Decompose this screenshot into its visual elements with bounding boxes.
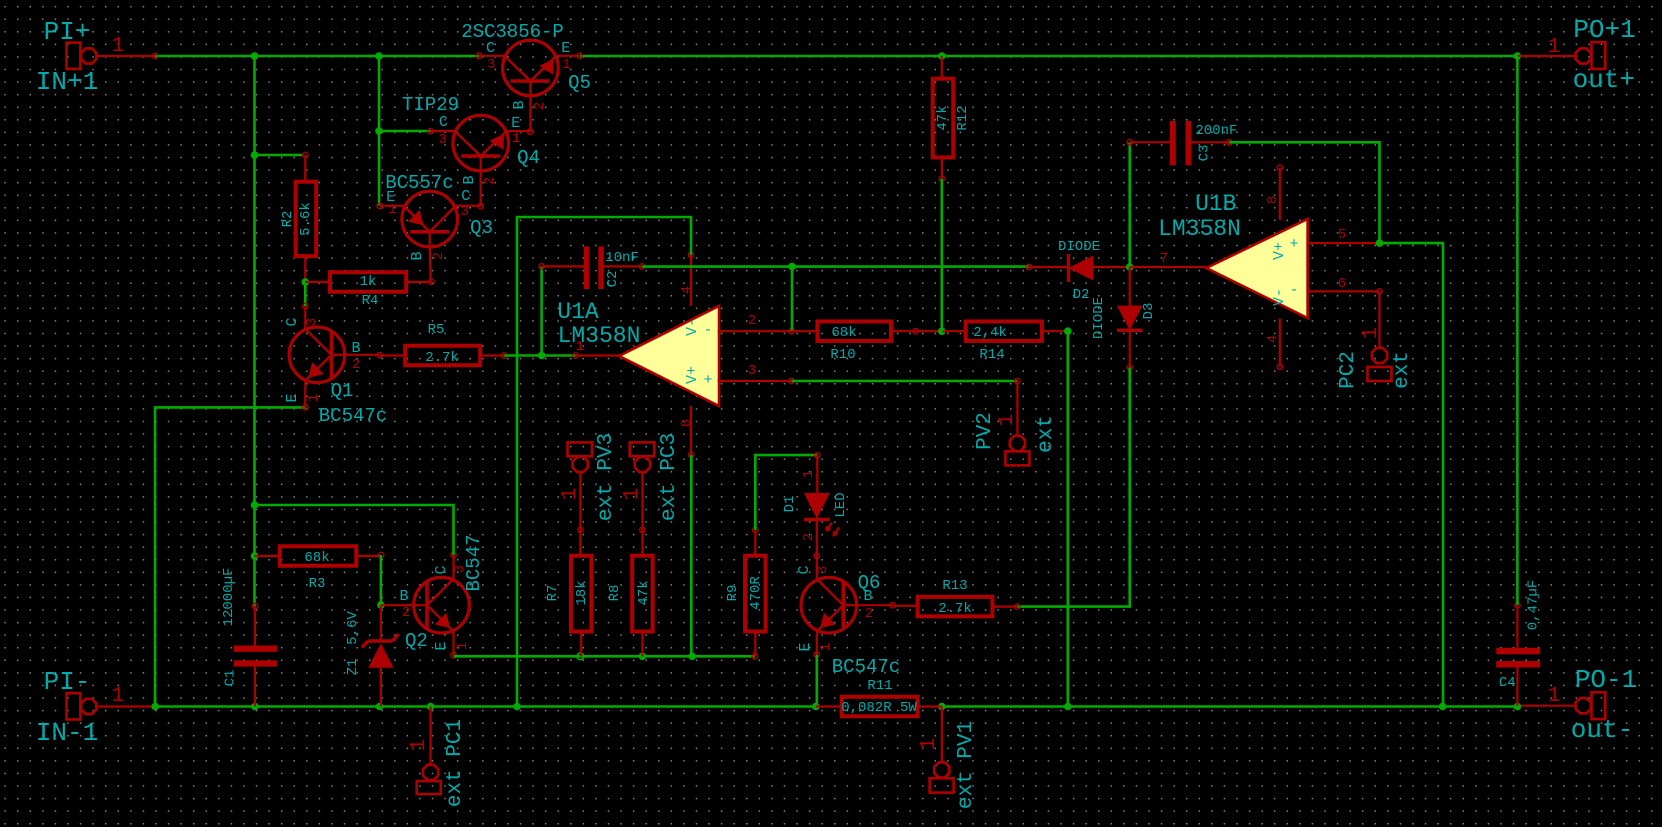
svg-text:U1A: U1A — [557, 299, 599, 325]
svg-text:C: C — [461, 188, 470, 205]
wire branch to R2 top — [255, 154, 303, 157]
svg-text:+: + — [703, 372, 712, 389]
svg-text:DIODE: DIODE — [1091, 297, 1107, 339]
svg-text:D2: D2 — [1073, 287, 1090, 303]
port extPV1 — [941, 707, 943, 763]
svg-text:4: 4 — [1265, 335, 1281, 343]
wire R2 bottom to Q1.C — [304, 282, 307, 306]
node Q2 base / Z1 junction — [377, 601, 385, 609]
svg-text:U1B: U1B — [1195, 191, 1236, 217]
wire branch to Q4.C — [379, 130, 431, 133]
port PV3 — [568, 442, 593, 456]
svg-text:Q4: Q4 — [517, 147, 540, 169]
svg-text:V+: V+ — [1271, 242, 1288, 260]
svg-text:B: B — [511, 100, 528, 109]
svg-text:B: B — [461, 175, 478, 184]
port extPC1 — [430, 707, 432, 765]
svg-text:LED: LED — [833, 492, 849, 517]
svg-text:BC547: BC547 — [463, 534, 485, 591]
svg-text:7: 7 — [1160, 251, 1168, 267]
svg-text:0,082R 5W: 0,082R 5W — [841, 700, 917, 716]
wire Q6 emitter to bottom rail — [815, 655, 818, 707]
svg-text:8: 8 — [679, 419, 695, 427]
zener Z1 5.6V — [380, 605, 382, 641]
svg-text:3: 3 — [438, 132, 446, 148]
svg-text:Q5: Q5 — [568, 72, 591, 94]
port PO-1 / out- — [1592, 692, 1606, 719]
svg-text:5,6V: 5,6V — [345, 611, 361, 645]
op-amp U1A LM358N — [619, 306, 719, 406]
svg-text:1: 1 — [801, 470, 817, 478]
wire C3 right to U1B pin5 node — [1229, 142, 1379, 243]
svg-text:1: 1 — [1548, 685, 1561, 708]
wire drop to U1A pin2 / R10 — [791, 267, 794, 332]
svg-text:1: 1 — [559, 488, 582, 501]
resistor R10 68k — [817, 321, 891, 341]
svg-text:C3: C3 — [1197, 145, 1213, 162]
port PC2 ext — [1378, 291, 1380, 347]
wire bottom rail right — [942, 705, 1518, 708]
svg-text:1: 1 — [918, 738, 941, 751]
svg-text:1: 1 — [455, 642, 471, 650]
svg-text:47k: 47k — [636, 580, 652, 605]
svg-text:R9: R9 — [725, 585, 741, 602]
svg-text:E: E — [433, 641, 450, 650]
resistor R9 470R — [745, 556, 766, 632]
svg-text:3: 3 — [815, 566, 831, 574]
diode D1 LED — [815, 452, 820, 457]
svg-text:out-: out- — [1571, 715, 1633, 745]
svg-text:10nF: 10nF — [605, 250, 639, 266]
svg-text:1: 1 — [996, 414, 1019, 427]
wire Q1 emitter to bottom rail — [155, 407, 305, 706]
wire R5 to U1A pin1 — [504, 354, 575, 357]
svg-text:1: 1 — [306, 394, 322, 402]
svg-text:2.7k: 2.7k — [425, 350, 459, 366]
svg-text:1: 1 — [1360, 327, 1383, 340]
svg-text:2: 2 — [865, 606, 873, 622]
resistor R11 0.082R 5W — [842, 697, 918, 717]
svg-text:1: 1 — [112, 35, 125, 58]
port PI- / IN-1 — [67, 693, 81, 719]
svg-text:LM358N: LM358N — [558, 323, 641, 349]
transistor Q6 BC547c — [801, 577, 857, 633]
svg-text:-: - — [703, 322, 712, 339]
svg-text:68k: 68k — [831, 325, 856, 341]
wire Q2 emitter node wire — [454, 655, 755, 658]
svg-text:1: 1 — [408, 739, 431, 752]
svg-text:D3: D3 — [1141, 303, 1157, 320]
svg-text:470R: 470R — [748, 576, 764, 610]
svg-text:6: 6 — [1338, 276, 1346, 292]
svg-text:ext PC1: ext PC1 — [444, 719, 467, 807]
svg-text:3: 3 — [487, 57, 495, 73]
svg-text:R12: R12 — [955, 105, 971, 130]
svg-text:B: B — [409, 251, 426, 260]
svg-text:R14: R14 — [979, 347, 1004, 363]
svg-text:E: E — [284, 393, 301, 402]
svg-text:+: + — [1289, 236, 1298, 253]
svg-text:Q2: Q2 — [405, 630, 428, 652]
svg-text:Z1: Z1 — [345, 659, 361, 676]
svg-text:200nF: 200nF — [1195, 123, 1237, 139]
wire top rail left (PI+ to Q5.C) — [155, 55, 479, 58]
wire top rail right (Q5.E to PO+1) — [580, 55, 1517, 58]
svg-text:1k: 1k — [360, 274, 377, 290]
node D2/D3/U1B/C3 junction — [1126, 263, 1134, 271]
svg-text:18k: 18k — [574, 580, 590, 605]
node emitter wire junctions — [639, 653, 647, 661]
resistor R5 2.7k — [405, 346, 480, 366]
svg-text:Q3: Q3 — [470, 217, 493, 239]
resistor R7 18k — [571, 556, 592, 632]
port PC3 — [630, 442, 655, 456]
wire R14 right to bottom rail — [1067, 331, 1070, 706]
svg-text:V-: V- — [1271, 288, 1288, 306]
svg-text:1: 1 — [512, 131, 520, 147]
transistor Q3 BC557c — [402, 191, 458, 247]
resistor R12 47k — [933, 79, 954, 158]
diode D3 — [1117, 306, 1143, 331]
svg-text:68k: 68k — [304, 550, 329, 566]
svg-text:ext PC3: ext PC3 — [658, 433, 681, 521]
svg-text:C: C — [284, 317, 301, 326]
svg-text:C: C — [439, 114, 448, 131]
transistor Q2 BC547 — [414, 577, 470, 633]
svg-text:8: 8 — [1265, 196, 1281, 204]
svg-text:C4: C4 — [1499, 675, 1516, 691]
svg-text:2.7k: 2.7k — [938, 601, 972, 617]
wire left vertical x=254 (top rail to C1) — [253, 56, 256, 606]
svg-text:1: 1 — [112, 685, 125, 708]
svg-text:PC2: PC2 — [1337, 351, 1360, 389]
svg-text:out+: out+ — [1573, 65, 1635, 95]
wire C4 top to top rail — [1516, 56, 1519, 605]
svg-text:R2: R2 — [280, 211, 296, 228]
svg-text:PO+1: PO+1 — [1573, 15, 1635, 45]
svg-text:1: 1 — [562, 57, 570, 73]
svg-text:R3: R3 — [309, 576, 326, 592]
svg-text:2: 2 — [352, 357, 360, 373]
svg-text:5.6k: 5.6k — [298, 202, 314, 236]
svg-text:Q6: Q6 — [858, 572, 881, 594]
svg-text:ext: ext — [1391, 351, 1414, 389]
wire C2 left to pin1 node — [540, 266, 543, 355]
svg-text:V+: V+ — [684, 366, 701, 384]
svg-text:IN-1: IN-1 — [36, 718, 98, 748]
svg-text:BC547c: BC547c — [319, 405, 387, 427]
svg-text:E: E — [797, 642, 814, 651]
wire U1B pin5 to right vertical to bottom rail — [1380, 243, 1444, 706]
wire U1A feedback V- loop — [517, 217, 691, 707]
svg-text:1: 1 — [818, 643, 834, 651]
node R10/R14/R12 junction — [938, 327, 946, 335]
svg-text:1: 1 — [388, 202, 396, 218]
node pin1 wire junction — [538, 352, 546, 360]
svg-text:C2: C2 — [605, 271, 621, 288]
svg-text:2: 2 — [482, 177, 498, 185]
svg-text:-: - — [1289, 282, 1298, 299]
svg-text:PI+: PI+ — [44, 17, 91, 47]
node R14 right junction — [1064, 327, 1072, 335]
capacitor C1 12000uF — [234, 646, 277, 652]
svg-text:B: B — [351, 340, 360, 357]
svg-text:4: 4 — [679, 286, 695, 294]
svg-text:PI-: PI- — [44, 667, 91, 697]
svg-text:R5: R5 — [428, 322, 445, 338]
svg-text:C1: C1 — [223, 670, 239, 687]
wire Q2 collector riser — [255, 505, 454, 555]
svg-text:V-: V- — [684, 318, 701, 336]
resistor R4 1k — [330, 272, 406, 292]
node top rail junctions — [251, 52, 259, 60]
svg-text:B: B — [399, 588, 408, 605]
svg-text:C: C — [433, 565, 450, 574]
wire R3 right drop to Q2 base node — [380, 555, 383, 605]
resistor R8 47k — [632, 556, 653, 632]
svg-text:C: C — [796, 565, 813, 574]
svg-text:BC557c: BC557c — [385, 172, 453, 194]
svg-text:3: 3 — [748, 363, 756, 379]
svg-text:3: 3 — [460, 204, 468, 220]
svg-text:5: 5 — [1338, 227, 1346, 243]
svg-text:0,47µF: 0,47µF — [1525, 580, 1541, 630]
capacitor C4 0.47uF — [1496, 648, 1540, 655]
capacitor C3 200nF — [1170, 121, 1176, 165]
svg-text:2: 2 — [532, 102, 548, 110]
svg-text:LM358N: LM358N — [1158, 216, 1241, 242]
svg-text:ext PV1: ext PV1 — [955, 721, 978, 809]
svg-text:1: 1 — [621, 488, 644, 501]
svg-text:R4: R4 — [362, 293, 379, 309]
resistor R3 68k — [280, 546, 357, 566]
resistor R13 2.7k — [918, 597, 993, 617]
port PO+1 / out+ — [1592, 42, 1606, 69]
wire R9 top to D1 — [755, 455, 817, 530]
svg-text:12000µF: 12000µF — [221, 568, 237, 627]
svg-text:1: 1 — [1548, 36, 1561, 59]
svg-text:R7: R7 — [545, 585, 561, 602]
svg-text:2,4k: 2,4k — [973, 325, 1007, 341]
wire U1A pin8 to bottom node — [690, 455, 693, 656]
svg-text:R8: R8 — [607, 585, 623, 602]
wire R12 bottom to R10/R14 node — [940, 179, 943, 331]
svg-text:Q1: Q1 — [331, 380, 354, 402]
resistor R2 5.6k — [296, 182, 317, 256]
port PV2 ext — [792, 380, 1018, 383]
capacitor C2 10nF — [584, 247, 590, 290]
svg-text:3: 3 — [304, 318, 320, 326]
svg-text:2: 2 — [402, 605, 410, 621]
node R2 bottom / R4 junction — [302, 278, 310, 286]
svg-text:E: E — [511, 115, 520, 132]
svg-text:2: 2 — [748, 313, 756, 329]
wire C3 left to D2 node — [1128, 142, 1131, 267]
wire bottom rail left — [155, 705, 816, 708]
resistor R14 2.4k — [966, 321, 1042, 341]
svg-text:R10: R10 — [830, 347, 855, 363]
svg-text:47k: 47k — [935, 105, 951, 130]
svg-text:IN+1: IN+1 — [36, 67, 98, 97]
wire x=379 (top rail to Q3.E) — [378, 56, 381, 206]
svg-text:2: 2 — [801, 533, 817, 541]
svg-text:R13: R13 — [942, 578, 967, 594]
svg-text:TIP29: TIP29 — [402, 94, 459, 116]
diode D2 — [1067, 254, 1070, 282]
svg-text:2SC3856-P: 2SC3856-P — [461, 21, 564, 43]
svg-text:D1: D1 — [782, 496, 798, 513]
svg-text:ext PV3: ext PV3 — [595, 433, 618, 521]
op-amp U1B LM358N — [1206, 219, 1307, 318]
svg-text:PO-1: PO-1 — [1575, 665, 1637, 695]
svg-text:DIODE: DIODE — [1058, 239, 1100, 255]
transistor Q1 BC547c — [289, 327, 345, 383]
svg-text:R11: R11 — [867, 678, 892, 694]
svg-text:ext: ext — [1035, 415, 1058, 453]
wire D3 bottom to R13 — [1017, 367, 1129, 606]
svg-text:2: 2 — [431, 252, 447, 260]
wire C2 right to D2 anode — [642, 265, 1029, 268]
transistor Q5 2SC3856-P — [503, 40, 559, 96]
svg-text:PV2: PV2 — [974, 412, 997, 450]
node U1B pin5 junction — [1376, 239, 1384, 247]
node bottom rail junctions — [151, 703, 159, 711]
node C2-D2 wire junction at x=792 — [788, 263, 796, 271]
transistor Q4 TIP29 — [453, 115, 509, 171]
port PI+ / IN+1 — [67, 43, 81, 69]
svg-text:BC547c: BC547c — [832, 656, 900, 678]
